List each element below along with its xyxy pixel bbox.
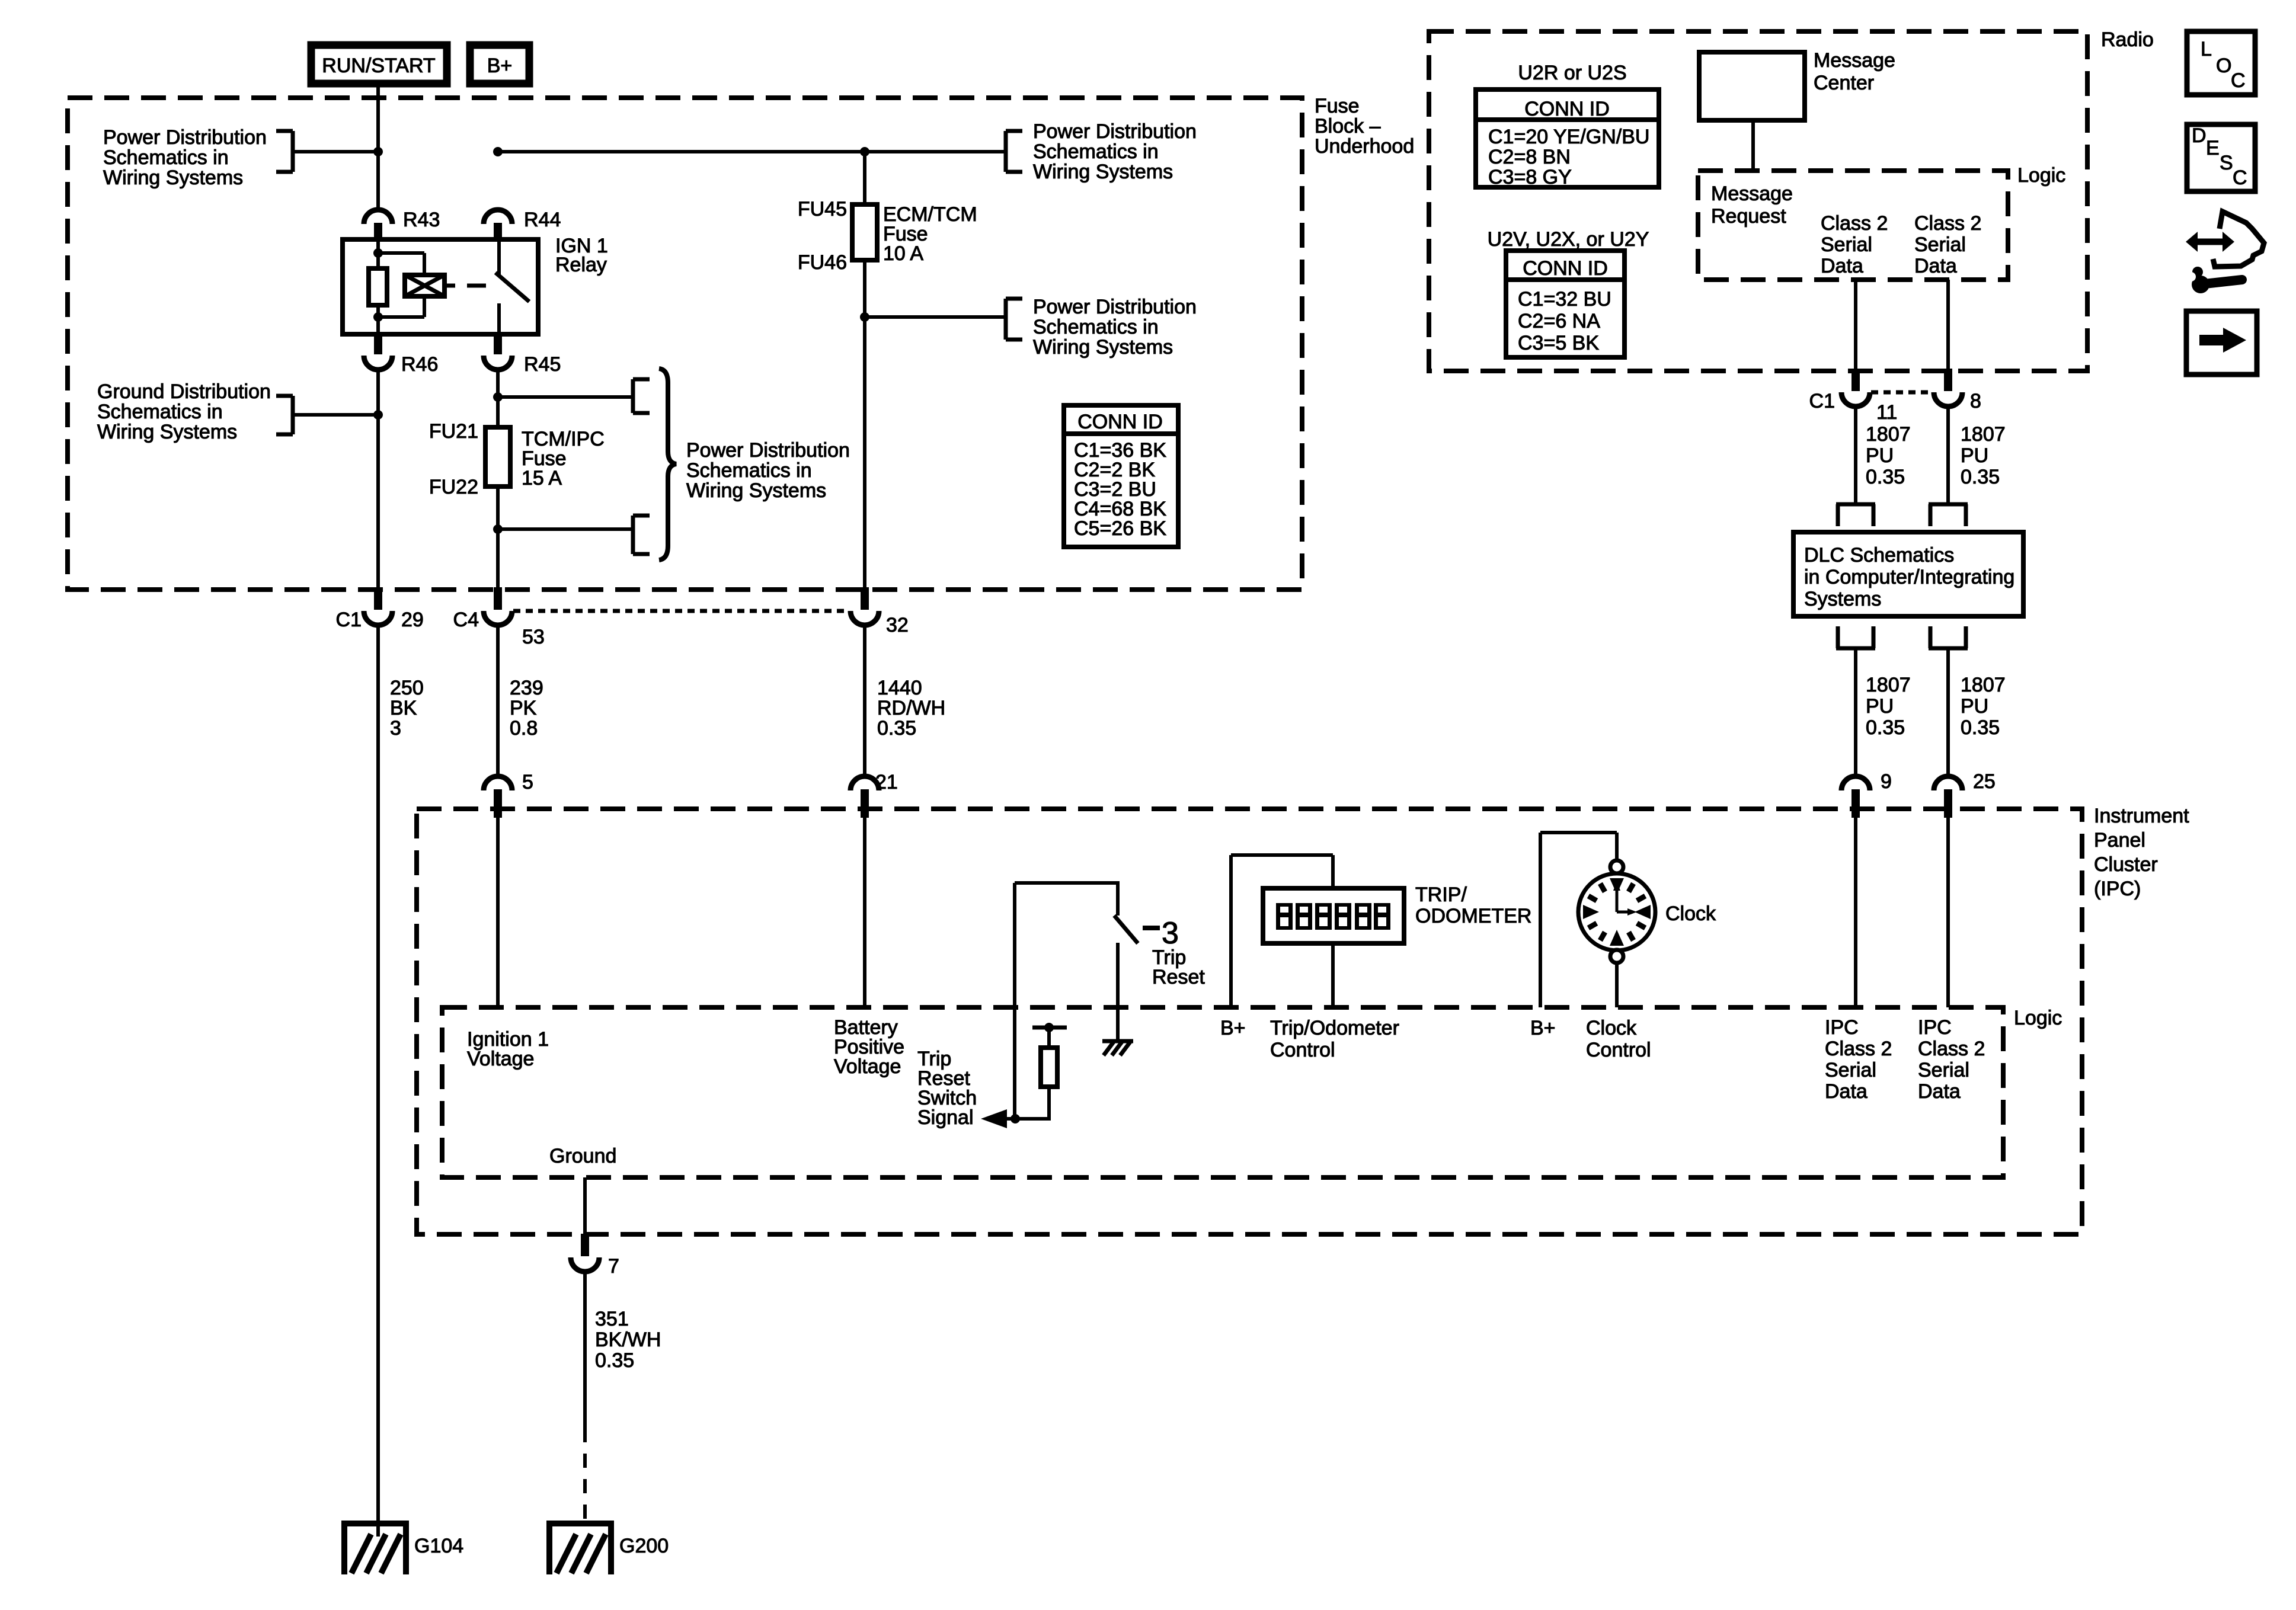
svg-text:Logic: Logic xyxy=(2017,164,2065,187)
svg-text:C1=32 BU: C1=32 BU xyxy=(1518,288,1611,311)
fuse block - underhood dashed box xyxy=(68,98,1302,590)
svg-text:Wiring Systems: Wiring Systems xyxy=(1033,161,1173,183)
relay coil xyxy=(405,275,445,296)
svg-text:DLC Schematics: DLC Schematics xyxy=(1804,544,1954,566)
svg-text:Power Distribution: Power Distribution xyxy=(1033,296,1197,318)
junction dot RUN/START branch xyxy=(373,147,383,156)
svg-text:1440: 1440 xyxy=(877,677,922,699)
connector R44 xyxy=(484,209,561,242)
wire label 1807 PU 0.35 (upper right) xyxy=(1961,423,2006,488)
wire RUN/START down to R43 xyxy=(376,87,380,211)
svg-text:Serial: Serial xyxy=(1821,233,1872,256)
wire label 1807 PU 0.35 (lower left) xyxy=(1866,674,1911,739)
svg-text:FU45: FU45 xyxy=(798,198,847,220)
svg-text:B+: B+ xyxy=(1530,1017,1556,1039)
label ECM/TCM fuse xyxy=(883,203,977,265)
bracket fuse lower xyxy=(633,516,650,554)
radio dashed box xyxy=(1429,31,2087,371)
label message center xyxy=(1814,49,1895,94)
svg-text:Radio: Radio xyxy=(2101,28,2154,51)
connector C1 pin 11 (radio) xyxy=(1809,369,1898,424)
svg-text:PK: PK xyxy=(510,697,537,719)
svg-text:Clock: Clock xyxy=(1665,902,1716,925)
wire to ground distribution bracket xyxy=(292,413,378,417)
junction dot ECM fuse top xyxy=(860,147,869,156)
connector pin 5 xyxy=(484,771,533,818)
svg-text:Underhood: Underhood xyxy=(1315,135,1414,158)
wire R45 to C4 xyxy=(496,369,500,590)
svg-text:0.35: 0.35 xyxy=(595,1349,634,1372)
svg-text:R45: R45 xyxy=(524,353,561,376)
relay IGN1 box xyxy=(343,239,538,334)
radio logic dashed box xyxy=(1698,171,2008,280)
label power distribution schematics (mid right) xyxy=(1033,296,1197,359)
svg-text:R46: R46 xyxy=(401,353,438,376)
svg-text:C3=8 GY: C3=8 GY xyxy=(1488,166,1572,188)
wire class2 col1 to radio edge xyxy=(1854,280,1857,371)
svg-text:Schematics in: Schematics in xyxy=(97,401,223,423)
icon LOC box xyxy=(2187,31,2255,95)
bracket ground distribution xyxy=(276,396,293,434)
fuse FU21/FU22 TCM/IPC xyxy=(485,427,510,486)
trip reset momentary symbol xyxy=(1162,916,1179,950)
relay coil feed junction top xyxy=(373,248,383,258)
wire clock to logic xyxy=(1615,962,1619,1007)
wire label 1807 PU 0.35 (upper left) xyxy=(1866,423,1911,488)
junction dot fuse lower branch xyxy=(493,524,503,534)
wire fuse upper branch xyxy=(498,395,633,399)
svg-text:RD/WH: RD/WH xyxy=(877,697,945,719)
connector pin 9 xyxy=(1841,770,1892,818)
svg-text:Cluster: Cluster xyxy=(2094,853,2158,876)
svg-text:0.8: 0.8 xyxy=(510,717,538,740)
label ignition 1 voltage xyxy=(467,1028,549,1070)
trip odometer digits xyxy=(1276,903,1390,930)
svg-text:PU: PU xyxy=(1961,695,1988,718)
svg-text:S: S xyxy=(2220,152,2233,174)
svg-text:C1=20 YE/GN/BU: C1=20 YE/GN/BU xyxy=(1488,126,1649,148)
svg-text:G104: G104 xyxy=(414,1535,463,1557)
wire fuse lower branch xyxy=(498,527,633,531)
label ground distribution schematics xyxy=(97,380,271,443)
relay IGN1 label xyxy=(555,235,608,276)
wire B+ to ECM fuse branch xyxy=(498,150,1006,153)
svg-text:0.35: 0.35 xyxy=(877,717,916,740)
label FU21 xyxy=(429,420,478,443)
svg-text:U2V, U2X, or U2Y: U2V, U2X, or U2Y xyxy=(1488,228,1649,251)
radio logic label xyxy=(2017,164,2065,187)
wire ground to IPC edge xyxy=(583,1177,587,1237)
svg-text:250: 250 xyxy=(390,677,424,699)
label B+ (clock) xyxy=(1530,1017,1556,1039)
DLC bracket upper right xyxy=(1929,504,1968,526)
wire label 250 BK 3 xyxy=(390,677,424,740)
svg-text:29: 29 xyxy=(401,609,424,631)
junction dot ground distribution branch xyxy=(373,410,383,420)
label battery positive voltage xyxy=(834,1016,904,1078)
bracket power distribution right lower xyxy=(1006,299,1022,340)
DLC bracket lower left xyxy=(1836,626,1875,648)
svg-text:1807: 1807 xyxy=(1961,423,2006,446)
svg-text:Ground: Ground xyxy=(549,1145,616,1167)
label trip reset xyxy=(1152,946,1205,988)
label U2V U2X U2Y xyxy=(1488,228,1649,251)
radio label xyxy=(2101,28,2154,51)
svg-text:Power Distribution: Power Distribution xyxy=(103,126,267,149)
svg-text:Data: Data xyxy=(1918,1080,1961,1103)
instrument panel cluster dashed box xyxy=(417,809,2082,1234)
svg-text:FU22: FU22 xyxy=(429,476,478,498)
icon forward arrow box xyxy=(2186,311,2257,375)
svg-text:Clock: Clock xyxy=(1586,1017,1637,1039)
svg-text:Power Distribution: Power Distribution xyxy=(686,439,850,462)
terminal RUN/START xyxy=(311,45,447,84)
svg-text:Logic: Logic xyxy=(2014,1007,2062,1029)
svg-text:5: 5 xyxy=(522,771,533,793)
svg-text:PU: PU xyxy=(1961,444,1988,467)
svg-text:RUN/START: RUN/START xyxy=(322,55,435,77)
svg-text:C2=8 BN: C2=8 BN xyxy=(1488,146,1571,168)
svg-text:Schematics in: Schematics in xyxy=(1033,316,1159,338)
DLC schematics box xyxy=(1793,532,2023,616)
relay switch blade xyxy=(495,273,529,302)
relay junction bottom xyxy=(373,312,383,322)
svg-text:C4: C4 xyxy=(453,609,479,631)
trip reset signal arrow xyxy=(981,1109,1007,1128)
svg-text:10 A: 10 A xyxy=(883,242,923,265)
svg-text:Control: Control xyxy=(1586,1039,1651,1061)
svg-text:Serial: Serial xyxy=(1825,1059,1876,1081)
svg-text:Instrument: Instrument xyxy=(2094,805,2189,827)
svg-text:Center: Center xyxy=(1814,72,1874,94)
svg-text:C3=5 BK: C3=5 BK xyxy=(1518,332,1599,354)
svg-text:7: 7 xyxy=(608,1255,619,1278)
wire label 1440 RD/WH 0.35 xyxy=(877,677,945,740)
junction dot ECM lower branch xyxy=(860,312,869,322)
label FU22 xyxy=(429,476,478,498)
icon schematic navigation xyxy=(2179,212,2264,293)
wire conn7 dashed to G200 xyxy=(583,1428,587,1521)
wire conn8 to DLC xyxy=(1946,405,1950,504)
label class 2 serial data (radio col1) xyxy=(1821,212,1888,277)
fuse FU45/FU46 ECM/TCM xyxy=(852,204,877,260)
wire ECM lower branch xyxy=(865,315,1006,319)
connector pin 8 (radio) xyxy=(1934,369,1981,412)
wire conn21 into IPC xyxy=(863,818,866,1007)
trip reset switch loop xyxy=(1015,883,1120,1119)
svg-text:C1: C1 xyxy=(1809,390,1835,412)
label power distribution schematics (left top) xyxy=(103,126,267,189)
svg-text:11: 11 xyxy=(1876,401,1897,424)
label ground xyxy=(549,1145,616,1167)
icon DESC box xyxy=(2187,124,2255,191)
svg-text:Systems: Systems xyxy=(1804,588,1881,610)
svg-text:Wiring Systems: Wiring Systems xyxy=(103,167,243,189)
relay coil branch top xyxy=(378,253,424,275)
label message request xyxy=(1711,183,1793,228)
trip odometer display box xyxy=(1263,888,1404,943)
connector link dotted 11-8 xyxy=(1871,391,1933,395)
ground chassis (trip reset) xyxy=(1102,1041,1133,1055)
svg-text:C2=6 NA: C2=6 NA xyxy=(1518,310,1600,332)
svg-text:E: E xyxy=(2206,137,2220,159)
svg-text:15 A: 15 A xyxy=(522,467,562,489)
wire message center to logic xyxy=(1751,120,1755,171)
svg-text:Relay: Relay xyxy=(555,254,607,276)
svg-text:Power Distribution: Power Distribution xyxy=(1033,120,1197,143)
junction dot B+ branch xyxy=(493,147,503,156)
wire R46 to C1 xyxy=(376,369,380,590)
message center box xyxy=(1699,52,1805,120)
IPC label xyxy=(2094,805,2189,900)
svg-text:Message: Message xyxy=(1711,183,1793,205)
wire C1 to G104 xyxy=(376,624,380,1537)
svg-text:Schematics in: Schematics in xyxy=(1033,140,1159,163)
svg-text:Wiring Systems: Wiring Systems xyxy=(1033,336,1173,359)
connector pin 21 xyxy=(850,771,898,818)
bracket power distribution left xyxy=(276,131,293,172)
svg-text:R43: R43 xyxy=(403,209,440,231)
trip reset switch blade xyxy=(1114,916,1138,943)
svg-text:Voltage: Voltage xyxy=(834,1055,901,1078)
connector link dotted C4-32 xyxy=(513,609,849,613)
connector C1 pin 29 xyxy=(336,587,424,631)
clock symbol xyxy=(1578,873,1655,950)
CONN ID table (fuse block) xyxy=(1064,405,1178,547)
svg-text:C: C xyxy=(2233,167,2247,189)
svg-text:Voltage: Voltage xyxy=(467,1048,534,1070)
trip reset signal line xyxy=(993,1114,1051,1124)
label FU46 xyxy=(798,251,847,274)
svg-text:Ground Distribution: Ground Distribution xyxy=(97,380,271,403)
svg-text:9: 9 xyxy=(1881,770,1892,793)
label power distribution (fuse block) xyxy=(686,439,850,502)
svg-text:8: 8 xyxy=(1970,390,1981,412)
IPC logic label xyxy=(2014,1007,2062,1029)
wire C4 to conn5 xyxy=(496,624,500,777)
svg-text:Wiring Systems: Wiring Systems xyxy=(686,479,826,502)
svg-text:L: L xyxy=(2201,38,2212,60)
svg-text:Panel: Panel xyxy=(2094,829,2145,852)
terminal B+ xyxy=(470,45,529,84)
svg-text:PU: PU xyxy=(1866,444,1894,467)
svg-text:21: 21 xyxy=(875,771,898,793)
label DLC schematics xyxy=(1804,544,2014,610)
svg-text:in Computer/Integrating: in Computer/Integrating xyxy=(1804,566,2014,588)
svg-text:Block –: Block – xyxy=(1315,115,1381,137)
wire 32 to conn21 xyxy=(863,624,866,777)
svg-text:3: 3 xyxy=(390,717,401,740)
wire label 239 PK 0.8 xyxy=(510,677,543,740)
svg-text:Data: Data xyxy=(1825,1080,1868,1103)
trip reset switch dash xyxy=(1143,926,1160,930)
svg-text:IPC: IPC xyxy=(1918,1016,1952,1039)
svg-text:TRIP/: TRIP/ xyxy=(1415,884,1467,906)
svg-text:Serial: Serial xyxy=(1918,1059,1969,1081)
wire label 351 BK/WH 0.35 xyxy=(595,1308,661,1372)
svg-text:239: 239 xyxy=(510,677,543,699)
wire conn9 into IPC xyxy=(1854,818,1857,1007)
connector R46 xyxy=(364,332,438,376)
svg-text:FU21: FU21 xyxy=(429,420,478,443)
trip reset resistor bar xyxy=(1032,1023,1067,1032)
svg-text:Signal: Signal xyxy=(917,1106,974,1129)
svg-text:U2R or U2S: U2R or U2S xyxy=(1518,62,1626,84)
svg-text:C: C xyxy=(2231,69,2246,92)
relay resistor wire bottom xyxy=(376,305,380,334)
svg-text:Control: Control xyxy=(1270,1039,1335,1061)
clock bottom terminal xyxy=(1610,950,1623,963)
clock top terminal xyxy=(1610,860,1623,873)
bracket power distribution right top xyxy=(1006,131,1022,172)
svg-text:Schematics in: Schematics in xyxy=(686,459,812,482)
svg-text:O: O xyxy=(2216,55,2231,77)
svg-text:C1: C1 xyxy=(336,609,362,631)
label IPC class 2 serial data (col2) xyxy=(1918,1016,1985,1103)
svg-text:D: D xyxy=(2192,124,2207,147)
resistor in relay xyxy=(369,268,387,305)
svg-text:CONN ID: CONN ID xyxy=(1077,411,1163,433)
clock loop xyxy=(1540,833,1617,1007)
CONN ID table (radio U2V/U2X/U2Y) xyxy=(1506,251,1625,357)
svg-text:3: 3 xyxy=(1162,916,1179,950)
svg-text:Message: Message xyxy=(1814,49,1895,72)
CONN ID table (radio U2R/U2S) xyxy=(1476,89,1659,188)
connector pin 32 xyxy=(850,587,909,636)
relay switch lower contact xyxy=(497,303,501,334)
svg-text:B+: B+ xyxy=(487,55,513,77)
relay coil dash link xyxy=(445,284,486,288)
connector pin 7 xyxy=(571,1234,619,1278)
svg-text:R44: R44 xyxy=(524,209,561,231)
DLC bracket lower right xyxy=(1929,626,1968,648)
svg-text:C5=26 BK: C5=26 BK xyxy=(1074,517,1166,540)
wire conn25 into IPC xyxy=(1946,818,1950,1007)
trip odometer loop xyxy=(1231,855,1333,1007)
DLC bracket upper left xyxy=(1836,504,1875,526)
label power distribution schematics (top right) xyxy=(1033,120,1197,183)
IPC logic dashed box xyxy=(442,1007,2003,1177)
svg-text:Fuse: Fuse xyxy=(1315,95,1360,117)
svg-text:Data: Data xyxy=(1914,255,1957,277)
trip reset lower wire xyxy=(1116,943,1120,1040)
svg-text:1807: 1807 xyxy=(1961,674,2006,696)
connector R43 xyxy=(364,209,440,242)
svg-text:BK: BK xyxy=(390,697,417,719)
relay resistor wire top xyxy=(376,239,380,268)
label class 2 serial data (radio col2) xyxy=(1914,212,1981,277)
wire DLC to conn25 xyxy=(1946,648,1950,777)
label U2R or U2S xyxy=(1518,62,1626,84)
wire class2 col2 to radio edge xyxy=(1946,280,1950,371)
svg-text:IPC: IPC xyxy=(1825,1016,1859,1039)
svg-text:Reset: Reset xyxy=(1152,966,1205,988)
wire to power distribution bracket (left) xyxy=(292,150,378,153)
svg-text:25: 25 xyxy=(1973,770,1996,793)
svg-text:32: 32 xyxy=(886,614,909,636)
svg-text:Class 2: Class 2 xyxy=(1918,1038,1985,1060)
label B+ (trip odometer) xyxy=(1220,1017,1246,1039)
svg-text:Trip/Odometer: Trip/Odometer xyxy=(1270,1017,1399,1039)
svg-text:(IPC): (IPC) xyxy=(2094,878,2141,900)
svg-text:G200: G200 xyxy=(619,1535,669,1557)
wire ECM fuse vertical xyxy=(863,152,866,590)
connector R45 xyxy=(484,332,561,376)
svg-text:CONN ID: CONN ID xyxy=(1524,98,1610,120)
svg-text:PU: PU xyxy=(1866,695,1894,718)
connector C4 pin 53 xyxy=(453,587,545,648)
label clock control xyxy=(1586,1017,1651,1061)
fuse block label xyxy=(1315,95,1414,158)
svg-text:0.35: 0.35 xyxy=(1866,716,1905,739)
svg-text:BK/WH: BK/WH xyxy=(595,1329,661,1351)
svg-text:Schematics in: Schematics in xyxy=(103,146,229,169)
label clock xyxy=(1665,902,1716,925)
wire label 1807 PU 0.35 (lower right) xyxy=(1961,674,2006,739)
label TCM/IPC fuse xyxy=(522,428,605,489)
relay switch fixed contact xyxy=(497,239,501,275)
wire conn7 down xyxy=(583,1270,587,1428)
connector pin 25 xyxy=(1934,770,1996,818)
svg-text:0.35: 0.35 xyxy=(1866,466,1905,488)
svg-text:FU46: FU46 xyxy=(798,251,847,274)
svg-text:0.35: 0.35 xyxy=(1961,716,2000,739)
svg-text:0.35: 0.35 xyxy=(1961,466,2000,488)
svg-text:CONN ID: CONN ID xyxy=(1523,257,1608,280)
svg-text:Class 2: Class 2 xyxy=(1825,1038,1892,1060)
svg-text:Class 2: Class 2 xyxy=(1914,212,1981,235)
junction dot fuse upper branch xyxy=(493,392,503,402)
svg-text:Serial: Serial xyxy=(1914,233,1966,256)
curly brace power distribution xyxy=(659,369,676,560)
label trip reset switch signal xyxy=(917,1048,977,1129)
ground G104 xyxy=(344,1523,463,1574)
ground G200 xyxy=(549,1523,669,1574)
svg-text:Wiring Systems: Wiring Systems xyxy=(97,421,237,443)
relay coil branch bottom xyxy=(378,296,424,317)
bracket fuse upper xyxy=(633,379,650,413)
wire conn11 to DLC xyxy=(1854,405,1857,504)
trip reset resistor xyxy=(1041,1028,1057,1119)
label IPC class 2 serial data (col1) xyxy=(1825,1016,1892,1103)
svg-text:Data: Data xyxy=(1821,255,1863,277)
wire conn5 into IPC xyxy=(496,818,500,1007)
wire DLC to conn9 xyxy=(1854,648,1857,777)
svg-text:1807: 1807 xyxy=(1866,423,1911,446)
wire trip odometer to logic xyxy=(1331,943,1335,1007)
label FU45 xyxy=(798,198,847,220)
label TRIP/ODOMETER xyxy=(1415,884,1531,927)
label trip/odometer control xyxy=(1270,1017,1399,1061)
svg-text:1807: 1807 xyxy=(1866,674,1911,696)
svg-text:Request: Request xyxy=(1711,205,1786,228)
svg-text:53: 53 xyxy=(522,626,545,648)
svg-text:ODOMETER: ODOMETER xyxy=(1415,905,1531,927)
svg-text:B+: B+ xyxy=(1220,1017,1246,1039)
svg-text:Class 2: Class 2 xyxy=(1821,212,1888,235)
svg-text:351: 351 xyxy=(595,1308,629,1330)
